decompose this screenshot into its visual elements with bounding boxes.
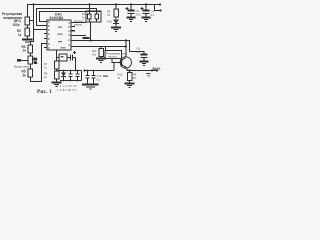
ground G2 [111,28,121,32]
wire R1 top [27,5,29,18]
wire R6a-R6b [56,69,58,71]
element inside box 1 [88,14,92,19]
wire R5 to loop [31,44,48,82]
wire pin1 right to box [71,22,86,24]
chassis bar [83,37,90,39]
wire to small box [57,57,60,59]
wire R8 drop [129,71,131,73]
svg-text:R15: R15 [82,12,87,16]
wire R6 top [115,5,117,10]
wire rail C left corner [40,12,48,22]
wire rail A to box elem1 [89,5,91,15]
wire pin y46 to collector [71,46,126,48]
wire emitter down and out [127,68,157,71]
ground under C3 [127,18,136,22]
small dash [103,76,108,77]
wire base rail drop [113,63,115,71]
svg-text:К140УД8: К140УД8 [50,16,64,20]
wire R2 bottom [27,36,29,39]
wire divider tap [30,20,34,22]
feedback box U2 [86,11,101,22]
svg-text:0,1: 0,1 [137,50,141,54]
capacitor C4 [143,5,150,18]
diode VD1 [113,20,119,28]
capacitor C3 [128,5,135,18]
svg-text:20,0: 20,0 [136,13,142,17]
capacitor C8 [141,55,148,62]
potentiometer R4 [28,56,33,64]
resistor R6b [54,71,59,79]
plus C5 [73,51,76,54]
rail y70 [57,70,82,72]
svg-text:R12: R12 [118,73,123,77]
wire to R3 [31,30,34,46]
wire R4-R5 [30,64,32,69]
wire pin y35 [71,35,86,37]
terminal dot [83,69,85,71]
capacitor C6 [69,71,73,81]
junction dots rails [63,80,65,82]
wire node X down [34,5,48,30]
svg-text:VD1: VD1 [107,20,113,24]
ground under R11 [96,59,106,63]
svg-text:1к: 1к [23,48,27,52]
svg-text:частоты: частоты [108,56,117,59]
element inside box 2 [95,14,99,19]
wire pin y40 [71,41,130,52]
wire box drop [105,47,107,51]
resistor R11 [99,49,104,57]
emitter arrow [124,66,127,68]
svg-text:100к: 100к [13,23,20,27]
capacitor C9 [86,71,90,84]
wiper terminal blob [17,59,21,62]
svg-text:3,3 1,0 С6 С8: 3,3 1,0 С6 С8 [57,86,77,88]
svg-text:R4: R4 [34,57,38,61]
small box B2 [59,54,67,61]
ground under C4 [142,18,151,22]
op-amp U1 DA1 body [47,20,71,50]
wire rail B right corner [96,9,98,15]
resistor R8 [127,73,132,81]
svg-text:VT1: VT1 [122,52,128,56]
svg-text:R7: R7 [44,62,48,66]
junction dots rail A [32,3,34,5]
resistor R2 [25,28,30,36]
control box Регулировка частоты [105,51,122,59]
ground under R8 [125,84,135,88]
wire R8 bottom [129,81,131,84]
rail A end dot [159,3,161,5]
resistor R6 top right [114,9,119,17]
pin stub right y26 [71,26,75,28]
ground G1 [22,40,33,43]
wire R1-R2 [27,25,29,28]
bias rail y71 left [85,70,115,72]
wire rail C / box top [39,11,101,13]
svg-text:R11: R11 [92,49,97,53]
stubs to box bottom [89,19,91,22]
wire box bottom drop [90,22,92,41]
pin stub right y31 [71,30,75,32]
resistor R5 [28,69,33,77]
svg-text:С8: С8 [137,47,141,51]
svg-text:1,5 В1 2М НЧ: 1,5 В1 2М НЧ [57,90,77,92]
svg-text:R6: R6 [107,10,111,14]
plus C3 [126,7,129,10]
svg-text:ВЫХ.: ВЫХ. [153,67,162,71]
wire R11 drop [100,47,102,49]
ground under R6b [52,83,62,87]
wire R6-VD1 [115,17,117,19]
pin numbers inside [48,21,69,49]
resistor R6a [54,61,59,69]
svg-text:R9: R9 [44,72,48,76]
wire R3-R4 [30,53,32,56]
pin stub right y30 [71,30,75,32]
capacitor C7 [76,71,80,81]
diode VD2 [61,71,66,81]
wire rail B left corner [37,9,48,26]
svg-text:0,1: 0,1 [151,13,155,17]
rail y80 [60,80,82,82]
resistor R3 [28,45,33,53]
output terminal top right [155,5,161,11]
wire box to base [112,59,121,63]
svg-text:режим: режим [74,23,82,26]
wire R4 wiper [21,60,28,62]
wire to C8 [130,52,145,55]
output dot [156,69,158,71]
pin stubs left [44,34,47,48]
svg-text:Рис. 1: Рис. 1 [37,89,52,95]
capacitor C5 beside box [67,55,76,61]
transistor VT1 [120,57,131,68]
wire IC bottom pin down [56,50,58,61]
svg-text:1к: 1к [18,33,22,37]
svg-text:С4: С4 [151,10,155,14]
resistor R1 [25,17,30,25]
ground under C8 [140,62,149,66]
wire rail A top [27,4,160,6]
wire rail B [36,8,97,10]
svg-text:3к: 3к [23,74,27,78]
ground under C9 C10 [82,85,99,90]
plus C4 [141,7,144,10]
rail right tie [81,71,83,81]
wire R11 bottom [100,57,102,59]
svg-text:Выход смещ.: Выход смещ. [14,65,30,69]
small marks below rail [146,73,151,74]
svg-text:R8: R8 [133,73,137,77]
svg-text:Автокол.: Автокол. [74,20,84,23]
capacitor C10 [92,71,96,84]
svg-text:С10: С10 [97,74,102,78]
wire R6b bottom [56,79,58,82]
svg-text:0,1: 0,1 [97,78,101,82]
wire C5 down to rail [75,58,77,71]
svg-text:С3: С3 [136,9,140,13]
wire collector drop [125,41,127,58]
